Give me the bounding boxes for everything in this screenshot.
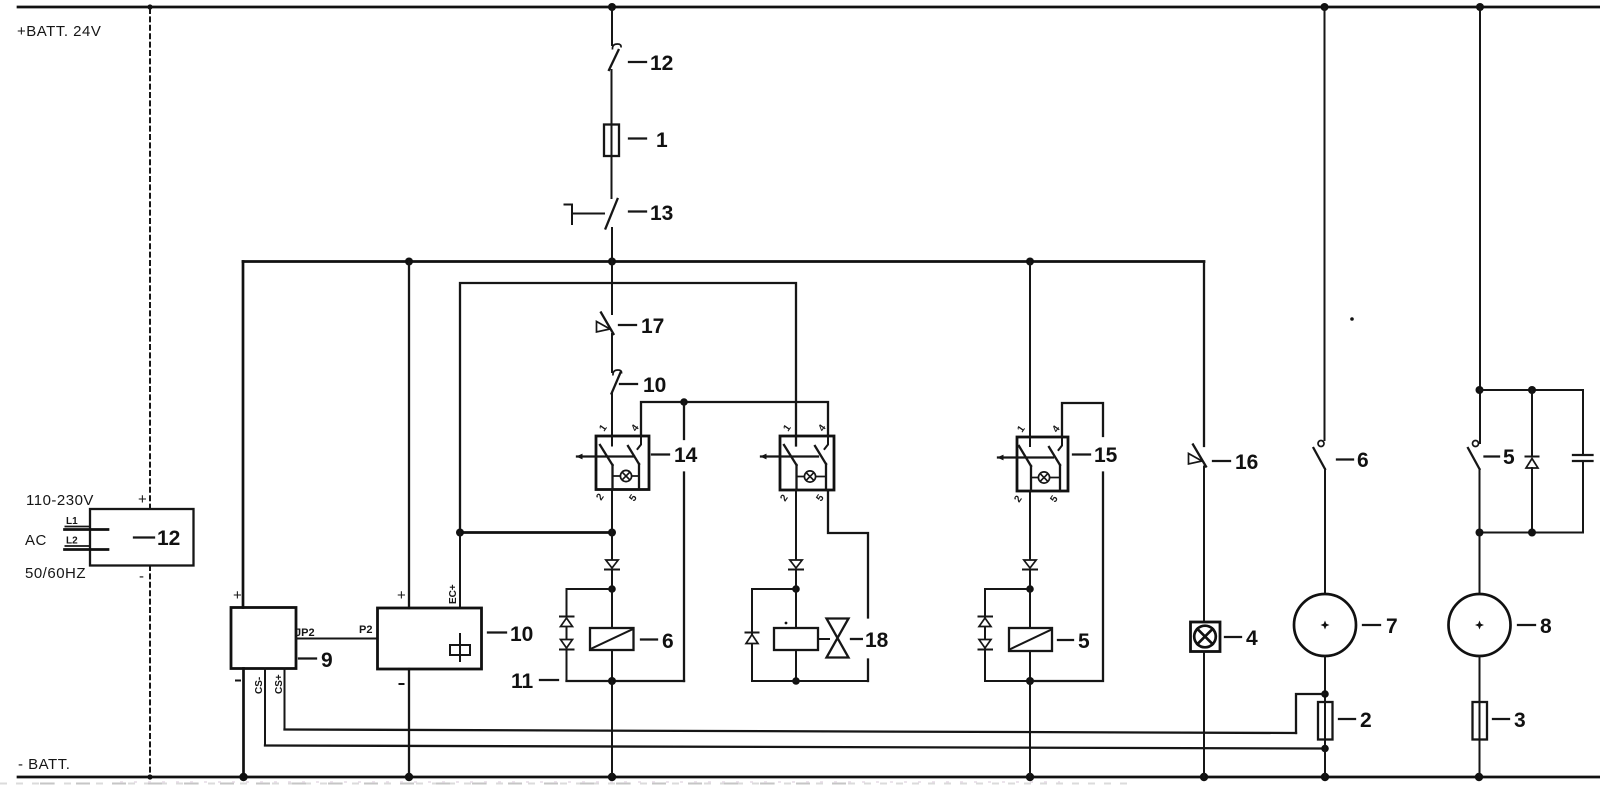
svg-text:CS-: CS- [254, 677, 265, 694]
wire capacitor branch upper [1582, 390, 1584, 455]
node bottom bus / box 9 branch [239, 773, 247, 781]
svg-text:2: 2 [1360, 709, 1372, 732]
fuse F2 [1318, 702, 1333, 740]
wire motor 8 to fuse 3 [1479, 656, 1481, 702]
controller box 9 [231, 608, 296, 669]
svg-text:15: 15 [1094, 444, 1118, 467]
wire coil 5 node to bottom bus [1029, 681, 1031, 777]
wire diode branch lower [1531, 468, 1533, 533]
relay contact block K14 [576, 436, 649, 490]
wire EC junction to main line [460, 531, 612, 534]
diode D1 on relay 14 coil line [605, 560, 619, 570]
crystal symbol inside box 10 [450, 634, 470, 661]
wire valve 18 loop bottom link [752, 680, 868, 682]
wire relay 2 pin5 to valve return lower [867, 660, 869, 682]
switch S5 [1468, 441, 1480, 470]
label reference 17 of switch [619, 315, 664, 338]
wire capacitor branch lower [1582, 461, 1584, 533]
label reference 7 of motor [1363, 615, 1398, 638]
relay contact block K2 for valve 18 [760, 436, 834, 490]
wire dashed AC mains line upper [149, 9, 151, 508]
node motor 7 return to CS+ link [1321, 690, 1329, 698]
wire diode to coil 5 [1029, 570, 1031, 629]
switch S10 [612, 370, 622, 394]
svg-text:- BATT.: - BATT. [18, 756, 70, 773]
wire fuse 1 to switch 13 [611, 156, 613, 198]
svg-text:13: 13 [650, 202, 673, 225]
wire coil 6 suppressor loop left [566, 589, 568, 681]
wire bus2 left drop to box 9 [242, 262, 245, 608]
node tap bottom rail to diode branch [1528, 529, 1536, 537]
switch S12 [609, 44, 621, 70]
indicator lamp H4 [1191, 622, 1221, 652]
svg-text:6: 6 [1357, 449, 1369, 472]
node coil 6 top junction [608, 585, 616, 593]
node bottom bus / relay 15 branch [1026, 773, 1034, 781]
label reference 8 of motor [1518, 615, 1552, 638]
wire relay 15 pin2 to coil 5 [1029, 491, 1031, 560]
label reference 5 of switch [1485, 446, 1516, 469]
svg-text:+: + [233, 587, 242, 604]
node bottom bus / lamp 4 branch [1200, 773, 1208, 781]
diode D5 suppressor on valve 18 loop [746, 633, 759, 644]
label reference 12 of switch [629, 52, 673, 75]
diode D9 freewheel across motor 8 [1526, 457, 1539, 469]
fuse F3 [1473, 702, 1488, 740]
wire bus2 right drop to switch 16 [1203, 262, 1205, 447]
label reference 5 of coil [1058, 630, 1090, 653]
wire +BATT 24V top bus [18, 6, 1600, 9]
svg-text:12: 12 [650, 52, 673, 75]
svg-text:10: 10 [643, 374, 666, 397]
node valve 18 coil top junction [792, 585, 800, 593]
label reference 10 of driver box [488, 623, 533, 646]
label reference 1 of fuse [629, 129, 668, 152]
wire inner rail to relay 2 pin1 [460, 283, 796, 533]
svg-text:-: - [139, 568, 145, 585]
node bus2 / relay 15 feed [1026, 258, 1034, 266]
label reference 15 of relay [1073, 441, 1122, 467]
wire top bus to diode capacitor tap [1479, 7, 1481, 443]
label reference 6 of switch [1337, 449, 1369, 472]
node tap top rail to diode branch [1528, 386, 1536, 394]
label minus below box 10 [400, 683, 404, 685]
wire coil 5 suppressor loop left [984, 589, 986, 681]
wire coil 5 suppressor loop top [985, 588, 1030, 590]
wire valve 18 suppressor loop left [751, 589, 753, 681]
wire valve coil bottom to loop node [795, 650, 797, 681]
relay coil K5 [1009, 628, 1052, 651]
svg-text:5: 5 [1503, 446, 1515, 469]
node diode capacitor tap top [1476, 386, 1484, 394]
node top bus / motor 8 branch [1476, 3, 1484, 11]
wire control bus 2 [243, 260, 1204, 263]
svg-text:9: 9 [321, 649, 333, 672]
node EC+ riser junction [456, 529, 464, 537]
svg-text:6: 6 [662, 630, 674, 653]
switch S13 with manual actuator [565, 199, 618, 229]
svg-text:L1: L1 [66, 516, 78, 527]
power supply U12 box [90, 509, 194, 566]
speck artifact near valve 18 [785, 622, 788, 625]
svg-text:JP2: JP2 [295, 627, 315, 639]
node pin4 rail to coil return branch [680, 398, 688, 406]
svg-text:12: 12 [157, 527, 180, 550]
label reference 4 of lamp [1225, 627, 1258, 650]
label reference 10 of switch [620, 374, 666, 397]
label reference 9 of controller box [299, 649, 333, 672]
label reference 14 of relay [652, 441, 702, 467]
node top bus / dashed mains line [147, 4, 152, 9]
wire diode branch upper [1531, 390, 1533, 456]
node fuse 2 to CS- line [1321, 745, 1329, 753]
wire box 10 minus drop to bottom bus [408, 669, 410, 777]
wire switch 5 to motor 8 [1479, 469, 1481, 594]
node coil 5 loop bottom [1026, 677, 1034, 685]
svg-text:14: 14 [674, 444, 698, 467]
label reference 16 of switch [1213, 451, 1258, 474]
diode D4 on valve 18 coil line [789, 560, 803, 570]
wire fuse 2 to bottom bus [1324, 740, 1326, 778]
svg-text:1: 1 [656, 129, 668, 152]
motor M8 [1449, 594, 1511, 656]
node tap bottom rail to switch 5 line [1476, 529, 1484, 537]
wire top bus to switch 12 [611, 7, 613, 45]
wire relay 14 pin2 to coil 6 [611, 490, 613, 561]
wire CS- drop from box 9 [264, 669, 266, 746]
wire top bus to switch 6 [1324, 7, 1326, 440]
svg-text:AC: AC [25, 532, 47, 549]
svg-text:CS+: CS+ [274, 674, 285, 694]
wire relay 15 pin4 rail lower to coil 5 node [1030, 473, 1103, 682]
node valve 18 loop bottom [792, 677, 800, 685]
wire relay 2 pin2 to valve coil [795, 490, 797, 560]
svg-text:110-230V: 110-230V [26, 492, 94, 509]
svg-text:+: + [397, 587, 406, 604]
svg-text:L2: L2 [66, 536, 78, 547]
fuse F1 [604, 125, 619, 157]
wire relay 14 pin4 to relay 2 pin4 [641, 402, 828, 436]
diode D3 suppressor lower on coil 6 loop [560, 640, 574, 650]
wire long CS- line to fuse 2 node [265, 746, 1325, 749]
node bus2 / box 10 plus feed [405, 258, 413, 266]
wire diode to valve coil [795, 570, 797, 629]
relay coil K6 [590, 628, 634, 650]
wire switch 16 to lamp 4 [1203, 467, 1205, 623]
svg-text:5: 5 [1078, 630, 1090, 653]
node top bus / switch 12 branch [608, 3, 616, 11]
limit switch S17 [597, 313, 614, 335]
wire diode to coil 6 [611, 570, 613, 629]
switch S6 [1314, 441, 1326, 470]
label reference 2 of fuse [1339, 709, 1372, 732]
wire relay 15 pin4 rail upper [1062, 403, 1103, 437]
node bottom bus / relay 14 branch [608, 773, 616, 781]
wire branch from pin4 rail down to wire 11 lower part [683, 473, 685, 682]
diode D7 suppressor upper on coil 5 loop [979, 617, 993, 627]
node bottom bus / dashed mains line [147, 774, 152, 779]
svg-text:7: 7 [1386, 615, 1398, 638]
label reference 13 of switch [629, 202, 673, 225]
wire relay 2 pin5 to valve return upper [828, 490, 868, 618]
svg-text:17: 17 [641, 315, 664, 338]
svg-text:11: 11 [511, 670, 534, 693]
wire EC+ drop into box 10 [459, 533, 461, 609]
label reference 12 of supply box [134, 527, 180, 550]
svg-text:16: 16 [1235, 451, 1258, 474]
node bottom bus / fuse 2 branch [1321, 773, 1329, 781]
node coil 5 top junction [1026, 585, 1034, 593]
wire coil 5 loop bottom link [985, 680, 1030, 682]
motor M7 [1294, 594, 1356, 656]
wire switch 12 to fuse 1 [611, 70, 613, 125]
scan noise band below bottom bus [0, 782, 1130, 784]
diode D2 suppressor upper on coil 6 loop [560, 617, 574, 627]
svg-text:EC+: EC+ [448, 584, 459, 604]
wire box 9 minus drop to bottom bus [242, 669, 245, 778]
wire -BATT bottom bus [18, 776, 1600, 779]
wire long CS+ line to motor 7 branch [285, 730, 1297, 734]
svg-text:4: 4 [1246, 627, 1258, 650]
wire switch 10 into relay 14 pin 1 [611, 394, 613, 446]
svg-text:+: + [138, 491, 147, 508]
capacitor C1 across motor 8 [1573, 455, 1593, 461]
wire tap bottom rail [1480, 532, 1584, 534]
limit switch S16 [1189, 445, 1207, 467]
wire fuse 3 to bottom bus [1479, 740, 1481, 778]
svg-text:50/60HZ: 50/60HZ [25, 565, 86, 582]
svg-text:+BATT. 24V: +BATT. 24V [17, 23, 101, 40]
wire dashed AC mains line lower [149, 566, 151, 775]
wire coil 5 bottom to loop node [1029, 651, 1031, 681]
node bottom bus / fuse 3 branch [1475, 773, 1483, 781]
node bottom bus / box 10 branch [405, 773, 413, 781]
svg-text:8: 8 [1540, 615, 1552, 638]
wire JP2 to P2 [296, 638, 378, 640]
pin L2 of supply [65, 536, 109, 550]
pin L1 of supply [65, 516, 109, 530]
diode D6 on relay 15 coil line [1023, 560, 1037, 570]
label minus below box 9 [236, 680, 240, 682]
wire valve 18 suppressor loop top [752, 588, 796, 590]
driver box 10 [378, 608, 482, 669]
svg-text:10: 10 [510, 623, 533, 646]
wire branch from pin4 rail down to wire 11 upper part [683, 402, 685, 439]
wire tap top rail [1480, 389, 1584, 391]
wire motor 7 to fuse 2 [1324, 656, 1326, 702]
wire coil 6 suppressor loop top [567, 588, 613, 590]
wire 11 bottom link [567, 680, 685, 682]
wire switch 13 to bus2 and switch 17 [611, 228, 613, 314]
label reference 6 of coil [641, 630, 674, 653]
wire switch 6 to motor 7 [1324, 469, 1326, 594]
label wire 11 [511, 670, 558, 693]
node bus2 / main line [608, 258, 616, 266]
wire lamp 4 to bottom bus [1203, 652, 1205, 778]
diode D8 suppressor lower on coil 5 loop [979, 640, 993, 650]
svg-text:18: 18 [865, 629, 889, 652]
relay contact block K15 [997, 437, 1068, 491]
wire CS+ link corner [1296, 694, 1325, 733]
wire bus2 drop to box 10 plus [408, 262, 410, 609]
label reference 3 of fuse [1493, 709, 1526, 732]
svg-text:3: 3 [1514, 709, 1526, 732]
svg-text:P2: P2 [359, 624, 372, 636]
label reference 18 of valve [851, 626, 892, 652]
wire bus2 drop to relay 15 pin 1 [1029, 262, 1031, 438]
solenoid coil of valve 18 [774, 628, 818, 650]
wire switch 17 to switch 10 [611, 334, 613, 372]
valve 18 body symbol [820, 619, 849, 658]
wire coil 6 to wire 11 node [611, 650, 613, 681]
speck artifact upper right [1350, 317, 1354, 321]
wire CS+ drop from box 9 [284, 669, 286, 730]
node wire 11 / main drop [608, 677, 616, 685]
wire main drop to bottom bus [611, 681, 613, 777]
node main line junction at relay 14 pin2 wire [608, 529, 616, 537]
node top bus / motor 7 branch [1321, 3, 1329, 11]
